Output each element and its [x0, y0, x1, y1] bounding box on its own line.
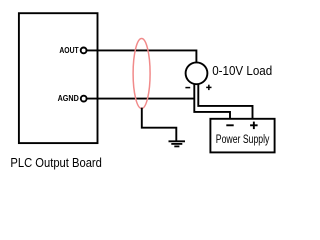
power supply box	[210, 119, 274, 153]
PLC output board box	[19, 13, 98, 143]
load U1 circle	[186, 62, 208, 84]
svg-text:AGND: AGND	[58, 94, 79, 103]
wire load left lead to supply minus	[194, 83, 230, 119]
ground	[169, 141, 186, 146]
shield ellipse	[133, 39, 150, 109]
terminal AOUT	[81, 48, 87, 54]
power supply minus	[226, 124, 233, 126]
wire load right lead to supply plus	[198, 83, 252, 119]
load plus sign	[206, 85, 211, 90]
terminal AGND	[81, 96, 87, 102]
svg-text:PLC Output Board: PLC Output Board	[10, 156, 102, 170]
power supply plus	[250, 122, 258, 130]
wire AOUT to load top	[87, 50, 196, 63]
svg-text:0-10V Load: 0-10V Load	[212, 63, 272, 78]
svg-text:Power Supply: Power Supply	[216, 132, 270, 146]
svg-text:AOUT: AOUT	[59, 46, 78, 55]
wire AGND to load left lead	[87, 98, 194, 100]
wire shield drain to ground	[142, 108, 177, 141]
load minus sign	[185, 87, 190, 89]
